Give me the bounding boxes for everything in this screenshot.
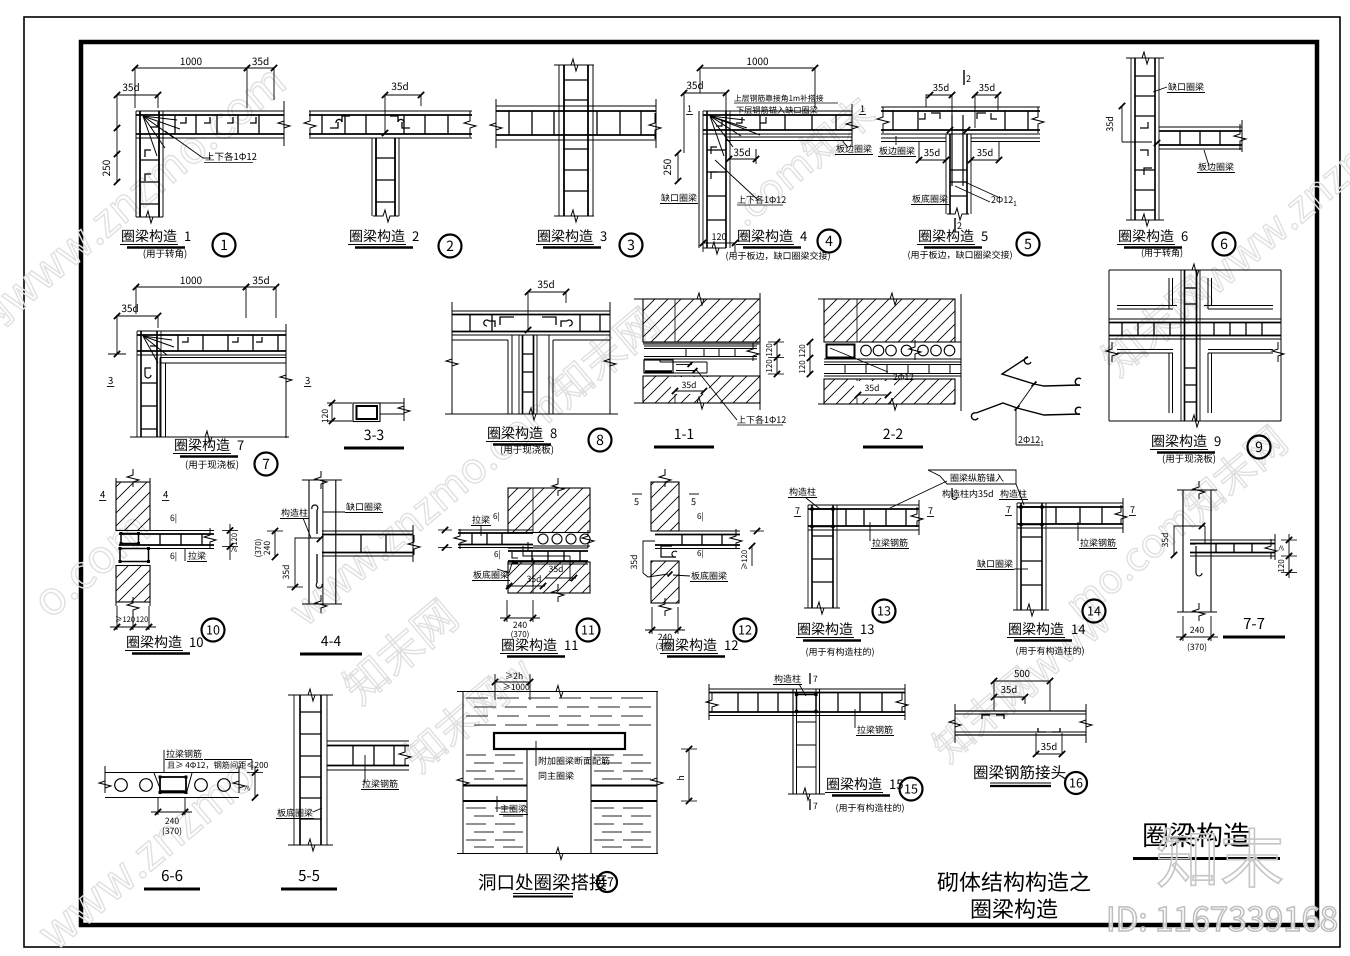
svg-text:7: 7 [1130, 503, 1135, 516]
watermark ID number [1106, 893, 1338, 941]
svg-text:2: 2 [446, 236, 454, 256]
figure 12 index circle 12 [734, 619, 757, 642]
svg-text:ID: 1167339168: ID: 1167339168 [1106, 893, 1338, 941]
svg-text:3: 3 [600, 226, 607, 245]
figure 5 index circle 5 [1017, 233, 1040, 256]
svg-text:圈梁构造: 圈梁构造 [487, 423, 543, 443]
watermark fragment left-bottom [22, 741, 268, 956]
svg-text:1-1: 1-1 [674, 424, 694, 444]
svg-text:缺口圈梁: 缺口圈梁 [977, 557, 1013, 570]
svg-text:7-7: 7-7 [1243, 613, 1265, 634]
svg-text:35d: 35d [1041, 739, 1058, 753]
svg-text:3: 3 [305, 373, 310, 387]
figure 11 title 圈梁构造 11 [500, 635, 578, 657]
svg-text:12: 12 [738, 620, 752, 639]
svg-text:≥: ≥ [243, 785, 253, 792]
svg-text:同主圈梁: 同主圈梁 [538, 769, 574, 782]
figure 15 subtitle (用于有构造柱的) [835, 801, 904, 814]
svg-text:1000: 1000 [180, 53, 203, 68]
figure 3 title 圈梁构造 3 [536, 226, 607, 248]
svg-text:洞口处圈梁搭接: 洞口处圈梁搭接 [478, 869, 608, 895]
svg-text:120: 120 [136, 614, 149, 625]
svg-text:上层钢筋靠接角1m补搭接: 上层钢筋靠接角1m补搭接 [734, 93, 824, 104]
figure 8 title 圈梁构造 8 [486, 423, 557, 445]
svg-text:圈梁构造: 圈梁构造 [797, 619, 853, 639]
svg-text:8: 8 [596, 430, 604, 450]
watermark fragment left-mid [17, 494, 163, 631]
section 5-5: vertical ring beam with slab-bottom beam [276, 689, 411, 851]
figure 5 title 圈梁构造 5 [917, 226, 988, 248]
svg-text:(用于转角): (用于转角) [1141, 246, 1183, 259]
svg-text:≥120: ≥120 [229, 533, 240, 553]
svg-text:2: 2 [966, 72, 971, 85]
figure 10: tie beam anchoring into wall [99, 469, 240, 630]
figure 15 title 圈梁构造 15 [825, 774, 903, 796]
figure 5: slab edge T with notched ring beam [877, 70, 1044, 232]
figure 13 index circle 13 [873, 600, 896, 623]
svg-text:120: 120 [797, 360, 808, 374]
svg-text:15: 15 [904, 779, 918, 798]
svg-text:17: 17 [600, 872, 614, 891]
svg-text:板边圈梁: 板边圈梁 [1198, 160, 1234, 173]
svg-text:构造柱: 构造柱 [281, 506, 308, 519]
figure 13 title 圈梁构造 13 [796, 619, 874, 641]
section 6-6: hollow-core slab with tie-beam rib [99, 747, 269, 837]
figure 10 index circle 10 [202, 619, 225, 642]
svg-text:4: 4 [100, 487, 105, 501]
svg-text:5: 5 [634, 495, 639, 508]
svg-text:拉梁钢筋: 拉梁钢筋 [362, 777, 398, 790]
figure 15: T ring beam with structural column [706, 672, 908, 812]
svg-text:250: 250 [659, 158, 674, 175]
svg-text:1: 1 [220, 235, 228, 255]
section 1-1 label [654, 424, 714, 447]
svg-text:14: 14 [1087, 601, 1101, 620]
section 6-6 label [144, 865, 200, 889]
svg-text:6-6: 6-6 [161, 865, 183, 886]
svg-text:5: 5 [691, 495, 696, 508]
watermark fragment upper-center [715, 82, 885, 238]
svg-text:35d: 35d [391, 78, 408, 93]
svg-text:1: 1 [184, 226, 191, 245]
svg-text:35d: 35d [280, 565, 292, 580]
svg-text:120: 120 [764, 359, 775, 373]
figure 4 title 圈梁构造 4 [736, 226, 807, 248]
svg-text:(370): (370) [162, 825, 182, 837]
svg-text:知末: 知末 [1156, 809, 1284, 901]
figure 7 index circle 7 [255, 453, 278, 476]
section 3-3: ring beam cross-section [319, 398, 410, 424]
svg-text:(用于板边，缺口圈梁交接): (用于板边，缺口圈梁交接) [907, 248, 1012, 261]
svg-text:7: 7 [1006, 503, 1011, 516]
svg-text:4: 4 [800, 226, 807, 245]
figure 1 index circle 1 [213, 234, 236, 257]
watermark logo 知末 [1156, 809, 1284, 901]
svg-text:缺口圈梁: 缺口圈梁 [346, 500, 382, 513]
svg-text:上下各1Φ12: 上下各1Φ12 [737, 193, 786, 206]
rebar lap pair sketch 2Φ12 [971, 357, 1081, 449]
svg-text:拉梁: 拉梁 [472, 513, 490, 526]
svg-text:5: 5 [981, 226, 988, 245]
title block text 圈梁构造 [1142, 814, 1250, 853]
svg-text:缺口圈梁: 缺口圈梁 [1168, 80, 1204, 93]
svg-text:35d: 35d [686, 77, 703, 92]
svg-text:圈梁构造: 圈梁构造 [826, 774, 882, 794]
svg-text:板底圈梁: 板底圈梁 [912, 192, 948, 205]
svg-text:圈梁构造: 圈梁构造 [537, 226, 593, 246]
svg-text:(370): (370) [253, 539, 264, 558]
svg-text:(用于现浇板): (用于现浇板) [1162, 451, 1216, 465]
svg-text:2-2: 2-2 [883, 424, 904, 444]
svg-text:5: 5 [1024, 234, 1032, 254]
svg-text:7: 7 [928, 504, 933, 517]
svg-text:9: 9 [1214, 431, 1221, 450]
figure 6 subtitle (用于转角) [1141, 246, 1183, 259]
section 2-2 label [863, 424, 923, 447]
svg-text:35d: 35d [924, 145, 941, 159]
figure 14: corner with structural column and notched ring beam [976, 498, 1136, 616]
figure 3: cross junction ring beam detail [490, 59, 661, 222]
svg-text:6: 6 [1220, 234, 1228, 254]
svg-text:圈梁构造: 圈梁构造 [126, 632, 182, 652]
svg-text:≥120: ≥120 [115, 614, 135, 625]
figure 13 subtitle (用于有构造柱的) [805, 645, 874, 658]
svg-text:1: 1 [1013, 199, 1017, 209]
svg-text:11: 11 [581, 620, 595, 639]
figure 17: ring beam lap splice at opening [457, 670, 697, 860]
svg-text:35d: 35d [979, 80, 996, 94]
figure 17 title 洞口处圈梁搭接 [478, 869, 608, 897]
svg-text:(用于有构造柱的): (用于有构造柱的) [835, 801, 904, 814]
section 7-7 label [1223, 613, 1285, 637]
figure 9 index circle 9 [1248, 436, 1271, 459]
section 7-7: beam at structural column wall [1159, 481, 1297, 653]
svg-text:8: 8 [550, 423, 557, 442]
figure 4 subtitle (用于板边，缺口圈梁交接) [725, 249, 830, 262]
svg-text:35d: 35d [122, 79, 139, 94]
svg-text:120: 120 [712, 230, 727, 243]
sheet subtitle line 1 砌体结构构造之 [937, 865, 1091, 897]
svg-text:2Φ12: 2Φ12 [893, 371, 914, 383]
svg-text:构造柱: 构造柱 [789, 485, 816, 498]
watermark fragment center [274, 292, 670, 638]
figure 14 index circle 14 [1083, 600, 1106, 623]
svg-text:圈梁构造: 圈梁构造 [501, 635, 557, 655]
svg-text:35d: 35d [121, 300, 138, 315]
figure 6 title 圈梁构造 6 [1117, 226, 1188, 248]
svg-text:www.znzmo.com知末网: www.znzmo.com知末网 [274, 292, 670, 638]
svg-text:主圈梁: 主圈梁 [500, 802, 527, 815]
svg-text:构造柱内35d: 构造柱内35d [942, 487, 994, 500]
section 4-4: notched beam at structural column [253, 471, 420, 613]
svg-text:圈梁构造: 圈梁构造 [661, 635, 717, 655]
svg-text:板底圈梁: 板底圈梁 [473, 568, 509, 581]
sheet subtitle line 2 圈梁构造 [970, 892, 1058, 924]
svg-text:120: 120 [1276, 559, 1287, 573]
svg-text:500: 500 [1014, 666, 1030, 680]
svg-text:35d: 35d [252, 272, 269, 287]
svg-text:且≥ 4Φ12，钢筋间距≤200: 且≥ 4Φ12，钢筋间距≤200 [167, 759, 269, 771]
svg-text:≥120: ≥120 [739, 550, 750, 570]
svg-text:上下各1Φ12: 上下各1Φ12 [737, 413, 786, 426]
figure 2 title 圈梁构造 2 [348, 226, 419, 248]
svg-text:6|: 6| [494, 549, 501, 560]
svg-text:10: 10 [206, 620, 220, 639]
svg-text:圈梁构造: 圈梁构造 [1151, 431, 1207, 451]
svg-text:35d: 35d [252, 53, 269, 68]
svg-text:6|: 6| [170, 512, 177, 524]
svg-text:3-3: 3-3 [364, 425, 384, 445]
svg-text:4-4: 4-4 [321, 631, 342, 651]
figure 7 title 圈梁构造 7 [173, 435, 244, 457]
svg-text:11: 11 [564, 635, 578, 654]
svg-text:35d: 35d [1159, 533, 1171, 548]
svg-text:拉梁钢筋: 拉梁钢筋 [857, 723, 893, 736]
svg-text:3: 3 [627, 235, 635, 255]
watermark fragment top-right [1087, 42, 1350, 388]
svg-text:(用于有构造柱的): (用于有构造柱的) [805, 645, 874, 658]
svg-text:缺口圈梁: 缺口圈梁 [661, 191, 697, 204]
svg-text:h: h [674, 775, 687, 780]
svg-text:3: 3 [108, 373, 113, 387]
figure 16 title 圈梁钢筋接头 [973, 761, 1066, 786]
figure 2 index circle 2 [439, 235, 462, 258]
svg-text:35d: 35d [1103, 116, 1116, 132]
figure 1 subtitle (用于转角) [143, 246, 187, 260]
figure 7 subtitle (用于现浇板) [185, 457, 239, 471]
figure 13: corner ring beam with structural column [788, 481, 957, 614]
svg-text:2: 2 [412, 226, 419, 245]
figure 7: corner ring beam on cast slab [107, 272, 311, 443]
svg-text:35d: 35d [733, 144, 750, 159]
svg-text:圈梁构造: 圈梁构造 [970, 892, 1058, 924]
svg-text:圈梁构造: 圈梁构造 [349, 226, 405, 246]
svg-text:圈梁构造: 圈梁构造 [1008, 619, 1064, 639]
svg-text:7: 7 [813, 673, 818, 685]
svg-text:35d: 35d [865, 382, 880, 394]
svg-text:4: 4 [163, 487, 168, 501]
svg-text:6|: 6| [170, 550, 177, 562]
figure 10 title 圈梁构造 10 [125, 632, 203, 654]
figure 1 title 圈梁构造 1 [120, 226, 191, 248]
svg-text:120: 120 [764, 343, 775, 357]
svg-text:圈梁构造: 圈梁构造 [737, 226, 793, 246]
svg-text:构造柱: 构造柱 [774, 672, 801, 685]
svg-text:7: 7 [262, 454, 270, 474]
svg-text:(用于现浇板): (用于现浇板) [500, 442, 554, 456]
figure 9: cross ring beam on cast slab [1106, 264, 1284, 427]
svg-text:构造柱: 构造柱 [1000, 487, 1027, 500]
svg-text:拉梁钢筋: 拉梁钢筋 [1080, 536, 1116, 549]
svg-text:圈梁构造: 圈梁构造 [174, 435, 230, 455]
figure 1: corner ring beam detail [98, 53, 290, 223]
figure 11 index circle 11 [577, 619, 600, 642]
figure 9 title 圈梁构造 9 [1150, 431, 1221, 453]
svg-text:附加圈梁断面配筋: 附加圈梁断面配筋 [538, 754, 610, 767]
figure 5 subtitle (用于板边，缺口圈梁交接) [907, 248, 1012, 261]
figure 17 index circle 17 [597, 872, 617, 893]
svg-text:圈梁构造: 圈梁构造 [1118, 226, 1174, 246]
figure 16 index circle 16 [1065, 772, 1087, 794]
svg-text:(用于板边，缺口圈梁交接): (用于板边，缺口圈梁交接) [725, 249, 830, 262]
svg-text:9: 9 [1255, 437, 1263, 457]
svg-text:7: 7 [813, 800, 818, 812]
svg-text:2Φ12: 2Φ12 [1018, 433, 1040, 446]
figure 12 title 圈梁构造 12 [660, 635, 738, 657]
svg-text:1: 1 [1040, 439, 1044, 449]
svg-text:120: 120 [319, 409, 331, 423]
svg-text:板底圈梁: 板底圈梁 [691, 569, 727, 582]
svg-text:板底圈梁: 板底圈梁 [277, 806, 313, 819]
figure 4 index circle 4 [818, 230, 841, 253]
figure 14 title 圈梁构造 14 [1007, 619, 1085, 641]
svg-text:板边圈梁: 板边圈梁 [836, 142, 872, 155]
section 3-3 label [344, 425, 404, 448]
svg-text:≥: ≥ [1277, 545, 1287, 552]
figure 14 subtitle (用于有构造柱的) [1015, 644, 1084, 657]
svg-text:上下各1Φ12: 上下各1Φ12 [205, 149, 257, 163]
svg-text:13: 13 [860, 619, 874, 638]
svg-text:圈梁纵筋锚入: 圈梁纵筋锚入 [950, 471, 1004, 484]
figure 12: slab-bottom ring beam at wall [628, 469, 764, 652]
svg-text:10: 10 [189, 632, 203, 651]
figure 3 index circle 3 [620, 234, 643, 257]
svg-text:13: 13 [877, 601, 891, 620]
figure 6 index circle 6 [1213, 233, 1236, 256]
svg-text:圈梁钢筋接头: 圈梁钢筋接头 [973, 761, 1066, 783]
svg-text:35d: 35d [682, 379, 697, 391]
figure 9 subtitle (用于现浇板) [1162, 451, 1216, 465]
svg-text:35d: 35d [537, 276, 554, 291]
svg-text:(用于现浇板): (用于现浇板) [185, 457, 239, 471]
svg-text:1: 1 [860, 102, 865, 115]
svg-text:1: 1 [687, 102, 692, 115]
figure 2: T-junction ring beam detail [304, 78, 476, 222]
svg-text:7: 7 [795, 504, 800, 517]
section 2-2: beam at hollow-core slab [797, 293, 961, 411]
figure 6: corner with notched ring beam vertical run [1103, 52, 1246, 226]
section 4-4 label [300, 631, 362, 654]
figure 8 subtitle (用于现浇板) [500, 442, 554, 456]
svg-text:(用于有构造柱的): (用于有构造柱的) [1015, 644, 1084, 657]
svg-text:35d: 35d [628, 555, 640, 570]
figure 4: slab-edge corner with notched ring beam [659, 53, 873, 254]
svg-text:圈梁构造: 圈梁构造 [918, 226, 974, 246]
svg-text:(370): (370) [1187, 641, 1207, 653]
svg-text:1000: 1000 [746, 53, 769, 68]
svg-text:6|: 6| [697, 548, 704, 559]
figure 8 index circle 8 [589, 429, 612, 452]
note 圈梁纵筋锚入构造柱内35d with leaders [928, 470, 1028, 505]
svg-text:7: 7 [237, 435, 244, 454]
svg-text:240: 240 [1190, 624, 1204, 636]
svg-text:1000: 1000 [180, 272, 203, 287]
figure 8: T ring beam on cast slab [445, 276, 618, 420]
svg-text:6|: 6| [697, 511, 704, 522]
svg-text:5-5: 5-5 [298, 865, 320, 886]
watermark fragment bottom-mid-right [918, 590, 1121, 773]
svg-text:拉梁钢筋: 拉梁钢筋 [872, 536, 908, 549]
svg-text:拉梁: 拉梁 [188, 549, 206, 562]
watermark fragment left-bottom-2 [327, 582, 469, 716]
title block underline [1133, 857, 1280, 860]
svg-text:35d: 35d [1001, 682, 1018, 696]
svg-text:板边圈梁: 板边圈梁 [879, 144, 915, 157]
svg-text:35d: 35d [933, 80, 950, 94]
svg-text:120: 120 [797, 344, 808, 358]
figure 16: ring beam rebar splice [949, 666, 1092, 757]
watermark fragment mid-right [1050, 411, 1297, 632]
watermark fragment top-left [0, 47, 297, 410]
figure 15 index circle 15 [900, 778, 923, 801]
svg-text:(用于转角): (用于转角) [143, 246, 187, 260]
figure 11: ring beam at hollow-core slab wall junction [438, 478, 594, 718]
svg-text:6: 6 [1181, 226, 1188, 245]
svg-text:6|: 6| [493, 511, 500, 522]
svg-text:16: 16 [1069, 773, 1083, 792]
svg-text:35d: 35d [977, 145, 994, 159]
section 1-1: beam section in wall [634, 293, 786, 426]
watermark fragment bottom-mid-left [390, 641, 544, 783]
svg-text:250: 250 [98, 159, 113, 176]
section 5-5 label [281, 865, 337, 889]
svg-text:圈梁构造: 圈梁构造 [121, 226, 177, 246]
svg-text:2Φ12: 2Φ12 [991, 193, 1013, 206]
svg-text:14: 14 [1071, 619, 1085, 638]
